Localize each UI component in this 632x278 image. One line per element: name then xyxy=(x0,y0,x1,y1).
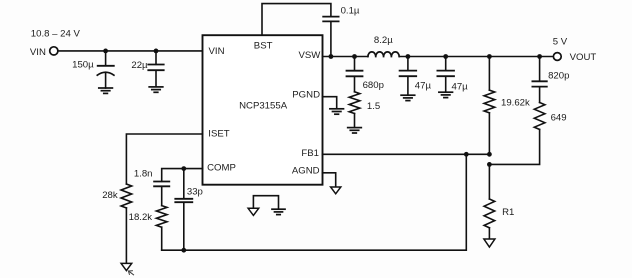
value label C1 xyxy=(72,60,94,71)
svg-text:22µ: 22µ xyxy=(131,60,148,71)
ground AGND arrow xyxy=(331,187,341,194)
svg-text:BST: BST xyxy=(254,41,273,52)
node R1 top junction xyxy=(487,162,492,167)
wire VSW rail right xyxy=(399,56,553,58)
op-amp U1 NCP3155A box xyxy=(203,35,323,185)
wire COMP xyxy=(162,169,203,182)
value label C4 xyxy=(415,81,432,92)
ground PGND xyxy=(330,109,344,114)
value label R1 xyxy=(502,207,514,218)
svg-text:47µ: 47µ xyxy=(415,81,432,92)
pin label PGND xyxy=(292,90,320,101)
resistor R4 649 xyxy=(489,103,545,165)
pin label ISET xyxy=(208,129,229,140)
ground R1 arrow xyxy=(484,239,495,247)
ground R3 xyxy=(348,128,362,133)
node 33p junction xyxy=(181,166,186,171)
capacitor C4 47µ xyxy=(400,57,417,96)
node C6 junction xyxy=(537,54,542,59)
svg-text:820p: 820p xyxy=(548,70,569,81)
pin label COMP xyxy=(207,162,236,173)
svg-text:18.2k: 18.2k xyxy=(129,212,153,223)
svg-text:VIN: VIN xyxy=(30,47,46,58)
svg-text:1.8n: 1.8n xyxy=(134,169,153,180)
svg-text:FB1: FB1 xyxy=(301,148,319,159)
value label R2 xyxy=(501,98,530,109)
ground C4 xyxy=(401,95,415,100)
ground tie arrow xyxy=(248,208,259,215)
value label L1 xyxy=(374,35,393,46)
terminal VIN xyxy=(50,47,58,55)
svg-text:COMP: COMP xyxy=(207,162,236,173)
ground tie earth xyxy=(272,209,285,214)
capacitor C7 680p xyxy=(347,57,363,92)
pin label FB1 xyxy=(301,148,319,159)
value label R4 xyxy=(551,112,567,123)
resistor R2 19.62k xyxy=(484,57,495,155)
capacitor C9 33p xyxy=(175,169,192,251)
ground C2 xyxy=(149,87,163,92)
pin label AGND xyxy=(292,165,320,176)
wire VSW rail left xyxy=(323,56,368,58)
svg-text:0.1µ: 0.1µ xyxy=(341,5,360,16)
pin label VIN xyxy=(209,46,225,57)
output voltage label xyxy=(553,36,568,47)
pin label BST xyxy=(254,41,273,52)
terminal VOUT label xyxy=(570,52,597,63)
svg-text:VSW: VSW xyxy=(298,50,321,61)
resistor R3 1.5 xyxy=(349,92,360,128)
node bottom junction xyxy=(181,248,186,253)
ground R5 arrow xyxy=(121,263,132,270)
value label R6 xyxy=(129,212,153,223)
input voltage label xyxy=(31,29,81,40)
svg-text:NCP3155A: NCP3155A xyxy=(239,101,288,112)
wire PGND xyxy=(323,97,337,109)
cursor mark xyxy=(128,271,133,275)
svg-text:R1: R1 xyxy=(502,207,514,218)
node C5 junction xyxy=(443,54,448,59)
resistor R5 28k xyxy=(121,184,132,263)
node C4 junction xyxy=(406,54,411,59)
part label NCP3155A xyxy=(239,101,288,112)
value label C8 xyxy=(134,169,153,180)
node FB-divider junction xyxy=(487,152,492,157)
capacitor C5 47µ xyxy=(437,57,454,93)
value label C5 xyxy=(452,82,469,93)
svg-text:33p: 33p xyxy=(187,186,203,197)
svg-text:28k: 28k xyxy=(102,190,118,201)
capacitor C8 1.8n xyxy=(154,182,169,187)
capacitor C3 0.1µ xyxy=(323,17,338,22)
capacitor C2 22µ xyxy=(148,51,163,87)
value label R3 xyxy=(367,101,380,112)
node snubber junction xyxy=(352,54,357,59)
node R2 junction xyxy=(487,54,492,59)
node BST-cap junction xyxy=(329,54,334,59)
wire FB1 xyxy=(323,153,490,155)
svg-text:10.8 – 24 V: 10.8 – 24 V xyxy=(31,29,81,40)
terminal VIN label xyxy=(30,47,46,58)
value label C3 xyxy=(341,5,360,16)
svg-text:PGND: PGND xyxy=(292,90,320,101)
svg-text:649: 649 xyxy=(551,112,567,123)
svg-text:1.5: 1.5 xyxy=(367,101,380,112)
ground C5 xyxy=(439,92,453,97)
value label C2 xyxy=(131,60,148,71)
svg-text:19.62k: 19.62k xyxy=(501,98,530,109)
node C2 junction xyxy=(154,49,159,54)
svg-text:5 V: 5 V xyxy=(553,36,568,47)
svg-text:VIN: VIN xyxy=(209,46,225,57)
wire ground tie xyxy=(253,196,278,209)
terminal VOUT xyxy=(553,53,561,61)
capacitor C6 820p xyxy=(532,57,546,103)
value label C6 xyxy=(548,70,569,81)
inductor L1 8.2µ xyxy=(368,52,399,57)
svg-text:47µ: 47µ xyxy=(452,82,469,93)
ground C1 xyxy=(99,88,113,93)
value label C9 xyxy=(187,186,203,197)
svg-text:680p: 680p xyxy=(363,80,384,91)
wire C3 to VSW xyxy=(330,22,332,57)
wire BST to C3 xyxy=(262,4,331,36)
value label C7 xyxy=(363,80,384,91)
resistor R6 18.2k xyxy=(156,187,167,251)
svg-text:8.2µ: 8.2µ xyxy=(374,35,393,46)
pin label VSW xyxy=(298,50,321,61)
wire ISET xyxy=(126,134,202,184)
capacitor C1 150µ xyxy=(97,51,114,88)
wire COMP to FB xyxy=(162,154,467,250)
wire VIN rail xyxy=(58,50,203,52)
svg-text:VOUT: VOUT xyxy=(570,52,597,63)
wire AGND xyxy=(323,173,336,187)
node FB-comp junction xyxy=(464,152,469,157)
svg-text:ISET: ISET xyxy=(208,129,229,140)
value label R5 xyxy=(102,190,118,201)
svg-text:AGND: AGND xyxy=(292,165,320,176)
svg-text:150µ: 150µ xyxy=(72,60,94,71)
node C1 junction xyxy=(103,49,108,54)
resistor R1 xyxy=(484,164,495,239)
